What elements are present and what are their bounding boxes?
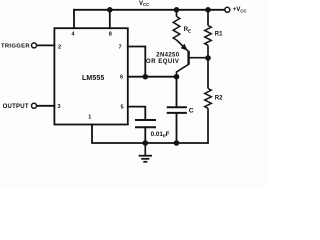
svg-text:TRIGGER: TRIGGER — [1, 43, 30, 49]
svg-text:2: 2 — [58, 44, 61, 50]
wire pin5 to bypass cap — [128, 107, 146, 120]
capacitor C2 0.01uF plates — [135, 120, 156, 127]
svg-text:RE: RE — [184, 27, 191, 33]
resistor RE — [173, 10, 180, 40]
IC U1 LM555 timer box — [54, 28, 127, 124]
resistor R1 — [205, 10, 212, 58]
capacitor C plates — [167, 107, 187, 113]
wire node to collector junction — [145, 76, 176, 78]
transistor Q1 2N4250 — [177, 40, 209, 77]
wire pin4 to rail — [73, 10, 75, 28]
svg-text:7: 7 — [118, 45, 121, 51]
svg-text:OUTPUT: OUTPUT — [3, 104, 29, 110]
node junction dots — [107, 7, 211, 146]
svg-text:2N4250: 2N4250 — [156, 52, 179, 58]
resistor R2 — [205, 58, 212, 143]
wire output to pin3 — [37, 105, 55, 107]
wire pin6 — [128, 76, 146, 78]
wire bypass cap to ground bus — [144, 127, 146, 143]
svg-text:LM555: LM555 — [82, 75, 104, 82]
wire pin7 — [128, 47, 146, 77]
wire pin1 to ground bus — [92, 125, 208, 144]
svg-text:OR EQUIV: OR EQUIV — [146, 59, 179, 65]
wire collector node to cap C — [176, 77, 178, 108]
svg-text:R1: R1 — [215, 32, 223, 38]
svg-text:1: 1 — [88, 115, 91, 121]
svg-text:C: C — [189, 107, 194, 114]
node +Vcc terminal — [225, 7, 230, 12]
svg-text:VCC: VCC — [139, 1, 149, 7]
svg-text:6: 6 — [120, 75, 123, 81]
svg-text:R2: R2 — [215, 96, 223, 102]
ground — [139, 143, 152, 162]
svg-text:8: 8 — [109, 31, 112, 37]
node OUTPUT terminal — [32, 103, 37, 108]
wire cap C to ground bus — [176, 113, 178, 143]
wire Vcc rail — [74, 9, 225, 11]
svg-text:3: 3 — [57, 104, 60, 110]
svg-text:5: 5 — [120, 105, 123, 111]
wire pin8 to rail — [109, 10, 111, 28]
svg-text:0.01μF: 0.01μF — [151, 131, 170, 138]
wire trigger to pin2 — [37, 44, 55, 46]
node TRIGGER terminal — [32, 43, 37, 48]
